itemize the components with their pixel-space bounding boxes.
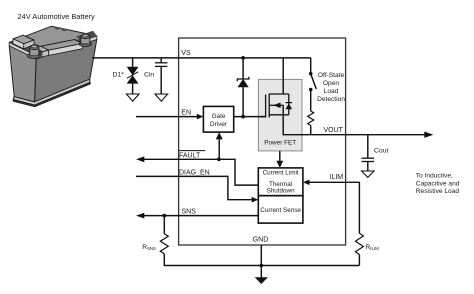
lid gray top [9,26,97,55]
power FET shaded region [258,79,302,150]
switch SW1 bottom contact [309,88,313,92]
transistor Q1 power FET (N-channel MOSFET) [258,94,288,118]
wire Cout to ground [367,162,369,171]
svg-text:Current Sense: Current Sense [260,207,301,214]
svg-text:Power FET: Power FET [264,140,296,147]
svg-text:Off-State: Off-State [318,72,345,79]
svg-text:VS: VS [181,50,191,57]
wire VOUT net: Q1 source to load [283,105,424,134]
wire VS net: battery positive to IC VS pin and switch [92,57,311,59]
ground at D1 [126,94,139,101]
junction on GND rail at ground symbol [259,264,263,268]
wire D1 to ground [132,84,134,94]
svg-text:SNS: SNS [182,208,197,215]
svg-text:FAULT: FAULT [179,152,201,159]
wire VS to zener D2 cathode [242,58,244,79]
svg-text:Gate: Gate [212,113,226,120]
lid lip light stripe right [36,36,97,59]
svg-text:Resistive Load: Resistive Load [416,188,460,195]
junction on gate net at zener D2 [241,115,245,119]
bottom dark base [13,82,90,106]
plateau left slope [36,46,49,51]
wire ILIM net to resistor RILIM [309,182,360,233]
wire power FET block to current limit block [279,151,281,162]
wire Cin to ground [160,66,162,94]
wire DIAG_EN net [136,176,252,199]
block U4 current sense [258,196,303,223]
capacitor Cin [155,63,167,67]
wire resistor R1 to VOUT net [310,126,312,135]
arrowhead DIAG_EN input to current sense block [252,197,259,203]
capacitor Cout [362,158,375,161]
wire switch SW1 bottom contact to resistor R1 [310,90,312,112]
plateau left-end light face [42,50,49,57]
wire gate net: U2 output to Q1 gate [234,116,266,118]
resistor RSNS [160,234,168,254]
svg-text:Current Limit: Current Limit [263,170,299,177]
arrowhead power FET to current limit block [276,161,283,168]
arrowhead EN input to gate driver U2 [197,114,204,120]
svg-text:RILIM: RILIM [366,244,380,251]
junction on VS net at zener D2 [241,56,245,60]
svg-text:Capacitive and: Capacitive and [416,180,460,187]
svg-text:RSNS: RSNS [142,244,156,251]
zener diode D2 (gate clamp) [237,77,249,88]
lid lip light stripe left [9,42,36,59]
overline for FAULT [179,150,205,152]
dark stripe along front-left lid edge [9,41,40,56]
left corner step block [13,35,34,44]
transistor Q1 bulk arrow [273,103,280,109]
arrowhead FAULT output (left) [136,156,144,162]
ground at Cin [155,94,168,101]
plateau front-right light face [49,44,83,56]
svg-text:VOUT: VOUT [324,127,344,134]
resistor RILIM [355,233,363,254]
TVS diode D1 zener bar [127,72,138,78]
svg-text:Shutdown: Shutdown [267,188,296,195]
case right (wide) face [35,39,97,103]
terminal left [27,45,40,58]
wire zener D2 anode to gate net [242,87,244,116]
dark stripe along front-right lid edge [33,34,97,55]
arrowhead ILIM input to current limit block [303,180,310,186]
TVS diode D1 [127,67,139,84]
wire VS net to TVS diode D1 [132,58,134,67]
terminal right [79,34,91,46]
svg-text:24V Automotive Battery: 24V Automotive Battery [18,12,96,21]
transistor Q1 body diode [286,103,293,109]
arrowhead VOUT to load [424,132,433,138]
lid edge nubs [55,27,59,30]
wire VOUT net to capacitor Cout [367,135,369,158]
wire RILIM bottom to GND rail [358,255,360,266]
svg-text:Detection: Detection [317,96,345,103]
bottom flange light stripe [13,79,90,105]
svg-text:To Inductive,: To Inductive, [416,173,453,180]
switch SW1 top contact [309,72,313,76]
switch SW1 lever [311,75,316,89]
svg-text:Cin: Cin [144,72,154,79]
resistor R1 (off-state open load detection pull-down) [308,111,314,126]
plateau top [41,40,83,51]
wire SNS net to resistor RSNS [163,216,165,234]
case left (narrow) face [9,46,36,104]
wire EN net [136,116,197,118]
op-amp U1 smart high-side switch IC boundary [179,38,346,245]
junction on FAULT net at gate driver branch [217,157,221,161]
dark patch at right terminal [76,31,97,42]
svg-text:Load: Load [324,88,339,95]
wire VS net to capacitor Cin [160,58,162,62]
svg-text:ILIM: ILIM [330,174,344,181]
wire VS net to Q1 drain [282,58,284,94]
block U3 current limit / thermal shutdown [258,168,303,196]
svg-text:GND: GND [253,234,269,243]
svg-text:Open: Open [323,80,339,87]
wire SNS net [144,215,259,217]
svg-text:D1*: D1* [113,72,125,79]
svg-text:Cout: Cout [374,148,388,155]
ground symbol lead [260,266,262,279]
block U2 gate driver [203,106,233,132]
svg-text:Driver: Driver [210,121,228,128]
wire VS to switch SW1 top contact [310,58,312,74]
battery illustration [9,26,97,107]
wire fault branch to U2 bottom [218,139,220,159]
ground symbol arrow at GND rail [255,277,268,284]
svg-text:DIAG_EN: DIAG_EN [179,169,210,176]
wire FAULT net [144,159,259,185]
ground at Cout [362,171,375,177]
arrowhead fault signal up into gate driver U2 [216,132,223,139]
wire GND rail: RSNS bottom to RILIM bottom [164,254,359,266]
arrowhead SNS output (left) [136,213,144,219]
svg-text:EN: EN [181,109,191,116]
wire GND pin to GND rail [260,245,262,266]
junction on SNS net at RSNS branch [162,214,166,218]
dark gap behind left terminal [26,41,45,54]
